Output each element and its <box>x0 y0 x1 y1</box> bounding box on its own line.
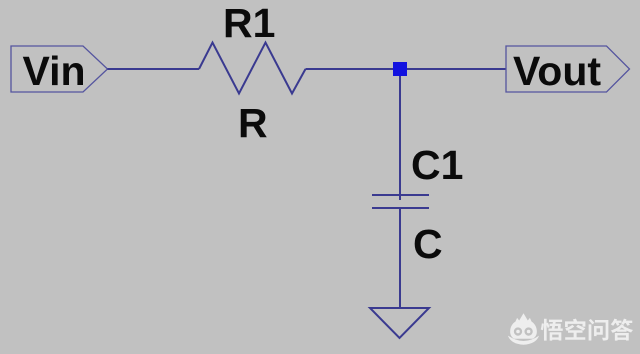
capacitor C1 <box>372 195 429 208</box>
watermark char 悟 <box>541 319 563 341</box>
wire C1 to ground <box>399 208 401 308</box>
svg-text:C1: C1 <box>411 142 463 188</box>
wire Vin to R1 <box>108 68 200 70</box>
svg-text:C: C <box>413 221 443 267</box>
wire node to C1 <box>399 76 401 195</box>
svg-text:R1: R1 <box>223 0 275 46</box>
watermark char 答 <box>611 319 633 341</box>
ground <box>370 308 429 338</box>
watermark text <box>541 319 633 341</box>
resistor R1 <box>199 43 306 94</box>
svg-text:R: R <box>238 100 268 146</box>
watermark logo eyes <box>516 330 520 334</box>
svg-text:Vout: Vout <box>513 48 601 94</box>
watermark char 问 <box>589 319 609 341</box>
watermark logo head <box>508 313 539 344</box>
watermark char 空 <box>565 319 585 340</box>
wire R1 to node <box>306 68 394 70</box>
node junction <box>393 62 407 76</box>
port flag Vout <box>506 46 630 92</box>
wire node to Vout <box>407 68 506 70</box>
watermark logo chin <box>508 336 539 345</box>
port flag Vin <box>11 46 108 92</box>
svg-text:Vin: Vin <box>23 48 86 94</box>
